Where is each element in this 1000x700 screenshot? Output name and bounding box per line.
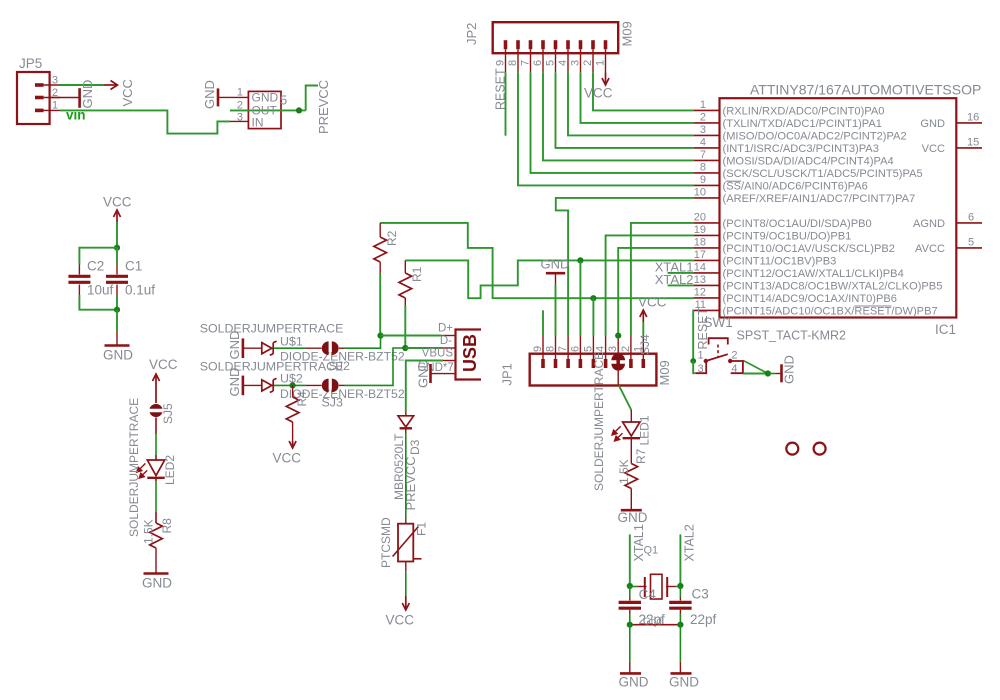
- svg-text:(MOSI/SDA/DI/ADC4/PCINT4)PA4: (MOSI/SDA/DI/ADC4/PCINT4)PA4: [723, 155, 894, 167]
- SW1 lever: [706, 354, 728, 361]
- LED LED1: [623, 422, 640, 438]
- svg-text:GND: GND: [920, 118, 945, 130]
- diode D3 MBR0520LT (pointing down): [398, 412, 414, 428]
- wire XTAL2 junction to crystal right plate: [666, 586, 680, 588]
- wire R2 bottom to D+ junction: [379, 273, 381, 336]
- junction dot SW1 GND: [765, 370, 771, 376]
- junction dot at OUT net: [296, 107, 302, 113]
- svg-text:1: 1: [237, 87, 243, 99]
- wire U$1 diode to SJ2: [274, 347, 322, 349]
- svg-text:XTAL2: XTAL2: [655, 272, 694, 287]
- ground symbol (rotated) at regulator pin1: [217, 88, 220, 106]
- wire SW1 pin4 to GND junction: [743, 373, 768, 375]
- svg-text:19: 19: [694, 224, 706, 236]
- wire JP2 pin8 to IC pin9: [518, 72, 694, 185]
- junction dot RESET at SW1: [690, 358, 696, 364]
- wire U$2 GND bar to diode: [243, 384, 262, 386]
- wire JP2 pin3 to IC pin2: [581, 72, 695, 123]
- svg-text:7: 7: [557, 346, 569, 352]
- svg-text:5: 5: [968, 236, 974, 248]
- svg-text:7: 7: [700, 149, 706, 161]
- svg-text:R4: R4: [295, 391, 309, 407]
- connector JP1 body: [530, 354, 657, 386]
- supply VCC arrow (up) above SJ5: [153, 374, 160, 403]
- Gnd bus bar between C4 and C3: [630, 624, 681, 626]
- svg-text:D-: D-: [440, 335, 452, 347]
- resistor R1: [399, 260, 412, 305]
- supply VCC arrow (up) at JP1 pin1: [640, 310, 647, 322]
- svg-text:2: 2: [700, 111, 706, 123]
- wire vin: JP5 pin1 to regulator IN: [60, 110, 230, 133]
- svg-text:2: 2: [731, 350, 737, 362]
- SW1 actuator dashed link: [717, 345, 719, 357]
- svg-text:4: 4: [595, 346, 607, 352]
- svg-text:U$1: U$1: [280, 335, 303, 349]
- wire XTAL2 junction down to C3: [679, 586, 681, 601]
- svg-text:12: 12: [694, 286, 706, 298]
- wire diagonal JP1 pin3 to LED1: [619, 386, 631, 411]
- wire OUT junction up to PREVCC label: [306, 86, 318, 111]
- wire regulator GND pin to bar: [218, 96, 248, 98]
- JP2 pin numbers (rotated): [495, 60, 607, 66]
- capacitor C2 plates: [68, 276, 90, 282]
- wire IC pin11 RESET down to SW1: [692, 310, 695, 361]
- svg-text:(SS/AIN0/ADC6/PCINT6)PA6: (SS/AIN0/ADC6/PCINT6)PA6: [723, 180, 868, 192]
- svg-text:3: 3: [700, 124, 706, 136]
- svg-text:4: 4: [557, 60, 569, 66]
- svg-text:3: 3: [607, 346, 619, 352]
- svg-text:(PCINT11/OC1BV)PB3: (PCINT11/OC1BV)PB3: [723, 255, 837, 267]
- svg-text:3: 3: [52, 75, 58, 87]
- op-amp/mcu IC1 body: [720, 98, 957, 317]
- wire XTAL1 junction to crystal left plate: [630, 586, 647, 588]
- svg-text:C3: C3: [692, 587, 709, 602]
- svg-text:R8: R8: [160, 518, 174, 534]
- svg-text:SJ4: SJ4: [638, 334, 652, 355]
- svg-text:R7: R7: [634, 448, 648, 464]
- svg-text:PTCSMD: PTCSMD: [379, 517, 393, 568]
- svg-text:D+: D+: [438, 323, 453, 335]
- USB pin stubs: [431, 336, 456, 374]
- svg-text:VCC: VCC: [120, 79, 135, 106]
- svg-text:(PCINT10/OC1AV/USCK/SCL)PB2: (PCINT10/OC1AV/USCK/SCL)PB2: [723, 243, 895, 255]
- svg-text:VCC: VCC: [103, 195, 132, 210]
- wire LED2 to R8: [155, 478, 157, 523]
- IC1 pin names PA0..PA7: [723, 105, 923, 204]
- resistor R2: [374, 223, 387, 273]
- ground symbol (rotated) at USB GND*7: [429, 364, 432, 383]
- svg-text:GND: GND: [103, 348, 133, 363]
- svg-text:Q1: Q1: [644, 545, 659, 557]
- svg-text:1: 1: [700, 99, 706, 111]
- svg-text:AVCC: AVCC: [915, 243, 945, 255]
- wire U$1 GND bar to diode: [243, 347, 262, 349]
- supply VCC arrow (down) below F1: [402, 596, 409, 610]
- svg-text:AGND: AGND: [913, 218, 945, 230]
- wire R8 to GND: [155, 548, 157, 574]
- svg-text:VCC: VCC: [386, 613, 415, 628]
- wire U$2 diode to SJ3 with R4 junction: [274, 384, 322, 386]
- svg-text:8: 8: [700, 161, 706, 173]
- SW1 pin2 stub: [730, 360, 744, 362]
- wire JP2 pin7 to IC pin8: [531, 72, 695, 173]
- wire C4 to bottom junction: [629, 610, 631, 625]
- svg-text:VCC: VCC: [922, 143, 945, 155]
- IC1 left pin stubs: [694, 110, 720, 310]
- wire RESET junction to SW1 pin3: [693, 361, 696, 373]
- junction dot top of C1/C2: [114, 245, 120, 251]
- svg-text:(PCINT14/ADC9/OC1AX/INT0)PB6: (PCINT14/ADC9/OC1AX/INT0)PB6: [723, 293, 897, 305]
- svg-text:(PCINT12/OC1AW/XTAL1/CLKI)PB4: (PCINT12/OC1AW/XTAL1/CLKI)PB4: [723, 268, 904, 280]
- svg-text:D3: D3: [408, 439, 422, 455]
- svg-text:7: 7: [520, 60, 532, 66]
- svg-text:VCC: VCC: [638, 295, 667, 310]
- zener diode U$1: [262, 341, 277, 355]
- svg-text:10: 10: [694, 186, 706, 198]
- mounting hole H2: [814, 443, 826, 455]
- svg-text:LED2: LED2: [163, 455, 177, 485]
- capacitor C3 plates: [669, 602, 691, 608]
- JP2 pins 9..1: [506, 40, 606, 72]
- wire OUT net across regulator to junction: [230, 109, 306, 111]
- junction dot bottom of C1/C2: [114, 307, 120, 313]
- wire C2 bottom to junction: [79, 295, 117, 310]
- connector JP2 body: [493, 22, 619, 53]
- capacitor C2 pins: [78, 265, 80, 296]
- resistor R7: [625, 464, 638, 489]
- svg-text:SOLDERJUMPERTRACE: SOLDERJUMPERTRACE: [200, 322, 344, 336]
- svg-text:USB: USB: [460, 334, 480, 372]
- wire SJ2 to D+ riser: [339, 336, 381, 349]
- SW1 actuator cap: [709, 338, 728, 344]
- wire JP2 pin9 RESET stub: [505, 72, 507, 136]
- svg-text:3: 3: [698, 363, 704, 375]
- junction dot D+: [377, 333, 383, 339]
- SW1 pin1 contact dot: [704, 359, 708, 363]
- switch SW1 right pole: [731, 362, 743, 373]
- svg-text:(TXLIN/TXD/ADC1/PCINT1)PA1: (TXLIN/TXD/ADC1/PCINT1)PA1: [723, 118, 882, 130]
- svg-text:18: 18: [694, 236, 706, 248]
- net stub XTAL2 at IC pin13: [668, 284, 694, 286]
- solder jumper SJ5: [150, 404, 163, 417]
- svg-text:R1: R1: [410, 266, 424, 282]
- svg-text:1: 1: [52, 100, 58, 112]
- ground symbol below R8: [144, 572, 169, 575]
- LED1 emission arrows: [612, 426, 623, 441]
- svg-text:(MISO/DO/OC0A/ADC2/PCINT2)PA2: (MISO/DO/OC0A/ADC2/PCINT2)PA2: [723, 130, 907, 142]
- svg-text:XTAL2: XTAL2: [683, 524, 697, 561]
- svg-text:0.1uf: 0.1uf: [125, 283, 155, 298]
- overline for SS in PA6: [726, 180, 741, 182]
- svg-text:8: 8: [545, 346, 557, 352]
- svg-text:5: 5: [582, 346, 594, 352]
- svg-text:(PCINT13/ADC8/OC1BW/XTAL2/CLKO: (PCINT13/ADC8/OC1BW/XTAL2/CLKO)PB5: [723, 280, 943, 292]
- svg-text:PREVCC: PREVCC: [316, 80, 331, 134]
- svg-text:VCC: VCC: [584, 86, 613, 101]
- LED2 emission arrows: [137, 463, 148, 478]
- svg-text:M09: M09: [620, 21, 635, 46]
- junction dot D-: [402, 345, 408, 351]
- svg-text:6: 6: [569, 346, 581, 352]
- wire IC pin20 to JP1 pin2: [631, 223, 694, 336]
- capacitor C1 pins: [116, 265, 118, 296]
- svg-text:3: 3: [237, 111, 243, 123]
- regulator pin names: [252, 91, 279, 130]
- wire JP1 pin6 riser: [579, 260, 581, 335]
- svg-text:C2: C2: [87, 259, 104, 274]
- svg-text:VCC: VCC: [149, 357, 178, 372]
- svg-text:SOLDERJUMPERTRACE: SOLDERJUMPERTRACE: [127, 398, 141, 537]
- svg-text:1: 1: [698, 350, 704, 362]
- svg-text:22pf: 22pf: [690, 612, 717, 627]
- svg-text:(PCINT15/ADC10/OC1BX/RESET/DW): (PCINT15/ADC10/OC1BX/RESET/DW)PB7: [723, 305, 938, 317]
- svg-text:6: 6: [968, 211, 974, 223]
- svg-text:C1: C1: [125, 259, 142, 274]
- svg-text:LED1: LED1: [638, 415, 652, 445]
- IC1 right pin stubs: [956, 123, 982, 248]
- wire R2 top to IC pin12 row (VCC net staircase): [380, 223, 694, 298]
- overline for RESET in PB7: [855, 305, 892, 307]
- mounting hole H1: [786, 443, 798, 455]
- svg-text:GND: GND: [142, 576, 172, 591]
- wire JP2 pin5 to IC pin4: [556, 72, 695, 148]
- junction dot XTAL1: [627, 583, 633, 589]
- svg-text:SJ3: SJ3: [322, 395, 343, 409]
- svg-text:(RXLIN/RXD/ADC0/PCINT0)PA0: (RXLIN/RXD/ADC0/PCINT0)PA0: [723, 105, 885, 117]
- ground symbol below C1/C2: [105, 331, 130, 346]
- ground symbol below C3: [671, 672, 692, 675]
- resistor R8: [150, 523, 163, 548]
- regulator pin 2 OUT stub: [230, 109, 248, 111]
- wire VCC arrow to JP1 pin1: [642, 322, 644, 335]
- zener diode U$2: [262, 378, 277, 392]
- junction dot JP1 pin6 on pin17 row: [577, 257, 583, 263]
- supply VCC arrow (right) at JP5: [104, 81, 118, 90]
- JP5 pin 2: [35, 96, 60, 100]
- ground symbol below R7: [621, 509, 642, 512]
- IC1 right pin names: [913, 118, 945, 255]
- svg-text:SOLDERJUMPERTRACE: SOLDERJUMPERTRACE: [200, 359, 344, 373]
- svg-text:GND: GND: [227, 331, 242, 360]
- svg-text:IN: IN: [252, 115, 264, 129]
- supply VCC arrow (up) above C1: [114, 210, 121, 222]
- wire JP1 pin9 stub: [542, 310, 544, 335]
- svg-text:GND: GND: [80, 80, 95, 109]
- svg-text:14: 14: [694, 261, 706, 273]
- wire R4 to VCC arrow: [292, 422, 294, 441]
- wire SJ3 to D- net: [339, 348, 405, 385]
- ground symbol below C4: [620, 672, 641, 675]
- svg-text:SOLDERJUMPERTRACE: SOLDERJUMPERTRACE: [592, 352, 606, 491]
- IC1 left pin numbers: [694, 99, 706, 311]
- svg-text:1.5K: 1.5K: [617, 459, 631, 484]
- svg-text:16: 16: [967, 111, 979, 123]
- svg-text:1: 1: [595, 60, 607, 66]
- JP1 pins 9..1: [543, 336, 643, 369]
- wire VBUS to D3: [406, 361, 443, 413]
- solder jumper SJ4 on JP1 pin3: [611, 353, 625, 370]
- svg-text:SPST_TACT-KMR2: SPST_TACT-KMR2: [737, 329, 847, 343]
- wire GND to JP1 pin8: [555, 285, 557, 336]
- svg-text:GND: GND: [619, 675, 649, 690]
- solder jumper SJ3: [322, 379, 339, 393]
- resistor R4: [286, 397, 299, 422]
- fuse F1 PTCSMD: [393, 524, 422, 562]
- wire C4 junction to GND: [629, 625, 631, 674]
- wire to LED1 anode: [630, 410, 632, 423]
- svg-text:IC1: IC1: [935, 322, 956, 337]
- junction dot C3 bottom: [677, 622, 683, 628]
- svg-text:9: 9: [532, 346, 544, 352]
- svg-text:JP1: JP1: [500, 363, 515, 385]
- wire C3 junction to GND: [679, 625, 681, 674]
- wire JP5 pin3 to VCC arrow: [60, 84, 104, 86]
- ground symbol (rotated) at SW1: [780, 364, 783, 382]
- svg-text:GND: GND: [541, 257, 570, 272]
- wire JP2 pin6 to IC pin7: [543, 72, 694, 160]
- supply VCC arrow (down) below R4: [289, 441, 296, 448]
- svg-text:4: 4: [731, 363, 737, 375]
- svg-text:JP5: JP5: [19, 56, 42, 71]
- junction dot XTAL2: [677, 583, 683, 589]
- USB connector body (open right): [456, 330, 482, 380]
- wire top junction to C2 branch: [79, 248, 117, 265]
- wire SJ4 to JP1 box bottom: [617, 369, 619, 386]
- supply VCC arrow (down) at JP2 pin1: [602, 72, 609, 85]
- wire R4 stem: [292, 385, 294, 397]
- svg-text:F1: F1: [415, 522, 429, 536]
- svg-text:M09: M09: [657, 360, 672, 385]
- svg-text:GND: GND: [669, 675, 699, 690]
- SW1 pin number labels: [698, 350, 738, 375]
- capacitor C4 plates: [619, 602, 641, 608]
- JP5 pin 3: [35, 83, 60, 87]
- svg-text:(PCINT9/OC1BU/DO)PB1: (PCINT9/OC1BU/DO)PB1: [723, 230, 852, 242]
- wire F1 to VCC arrow: [405, 562, 407, 597]
- solder jumper SJ2: [322, 341, 339, 355]
- IC1 pin names PB0..PB7: [723, 218, 943, 318]
- svg-text:ATTINY87/167AUTOMOTIVETSSOP: ATTINY87/167AUTOMOTIVETSSOP: [750, 82, 981, 98]
- regulator pin 3 IN stub: [230, 120, 248, 122]
- wire VCC arrow to top junction: [116, 222, 118, 248]
- wire IC pin18 to JP1 pin3: [618, 248, 694, 336]
- svg-text:GND: GND: [782, 355, 797, 384]
- svg-text:5: 5: [280, 93, 287, 108]
- wire top junction down to C1: [116, 248, 118, 265]
- wire R1 bottom to D- junction: [404, 305, 406, 348]
- svg-text:VBUS: VBUS: [422, 348, 454, 360]
- svg-text:GND: GND: [202, 80, 217, 109]
- junction dot C4 bottom: [627, 622, 633, 628]
- net stub XTAL1 at IC pin14: [668, 272, 694, 274]
- svg-text:(INT1/ISRC/ADC3/PCINT3)PA3: (INT1/ISRC/ADC3/PCINT3)PA3: [723, 143, 879, 155]
- wire XTAL1 junction down to C4: [629, 586, 631, 601]
- wire JP2 pin2 to IC pin1: [593, 72, 694, 110]
- svg-text:SW1: SW1: [704, 315, 733, 330]
- junction dot JP1 pin5 on pin12 row: [590, 295, 596, 301]
- svg-text:17: 17: [694, 249, 706, 261]
- JP5 pin 1: [35, 109, 60, 113]
- svg-text:5: 5: [545, 60, 557, 66]
- wire IC pin19 to JP1 pin4: [606, 235, 694, 335]
- ground symbol (rotated) at U$1: [242, 338, 245, 358]
- svg-text:13: 13: [694, 274, 706, 286]
- svg-text:VCC: VCC: [273, 451, 302, 466]
- svg-text:R2: R2: [385, 230, 399, 246]
- svg-text:SJ5: SJ5: [161, 403, 175, 424]
- svg-text:1.5K: 1.5K: [142, 519, 156, 544]
- wire D3 to F1: [405, 428, 407, 523]
- JP5 pin numbers: [52, 75, 58, 112]
- svg-text:GND: GND: [618, 510, 648, 525]
- svg-text:20: 20: [694, 211, 706, 223]
- svg-text:9: 9: [700, 174, 706, 186]
- svg-text:4: 4: [700, 136, 706, 148]
- wire C3 to bottom junction: [679, 610, 681, 625]
- wire JP1 pin5 riser: [592, 298, 594, 335]
- svg-text:GND: GND: [416, 359, 431, 388]
- connector JP5: [17, 72, 50, 124]
- svg-text:Gnd: Gnd: [643, 617, 662, 628]
- wire D- to USB: [405, 347, 441, 349]
- wire SW1 pin2 diagonal to GND junction: [744, 361, 768, 374]
- switch SW1 left pole: [696, 361, 706, 373]
- crystal Q1: [645, 574, 667, 599]
- capacitor C1 plates: [106, 276, 128, 282]
- svg-text:2: 2: [582, 60, 594, 66]
- wire bottom junction to GND: [116, 310, 118, 331]
- wire R1 top to IC pin17 row staircase: [405, 260, 694, 298]
- net stub XTAL2 to crystal: [679, 534, 681, 586]
- svg-text:15: 15: [967, 136, 979, 148]
- svg-text:6: 6: [532, 60, 544, 66]
- junction dot JP1 pin3: [615, 333, 621, 339]
- wire D+ to USB: [381, 335, 442, 337]
- regulator IC body: [248, 91, 281, 128]
- USB pin labels: [417, 323, 453, 375]
- svg-text:C4: C4: [639, 587, 657, 602]
- JP1 pin numbers (rotated): [532, 346, 644, 352]
- wire JP2 pin4 to IC pin3: [568, 72, 694, 135]
- svg-text:(AREF/XREF/AIN1/ADC7/PCINT7)PA: (AREF/XREF/AIN1/ADC7/PCINT7)PA7: [723, 193, 916, 205]
- wire SJ5 to LED2: [155, 418, 157, 461]
- wire junction to GND bar: [768, 373, 782, 375]
- svg-text:2: 2: [620, 346, 632, 352]
- regulator pin numbers: [237, 87, 243, 124]
- wire LED1 to R7: [630, 438, 632, 463]
- wire JP5 pin2 to GND bar: [50, 97, 80, 99]
- inverted ground symbol above JP1 pin8: [546, 273, 565, 284]
- wire R7 to GND: [630, 489, 632, 511]
- svg-text:GND: GND: [227, 368, 242, 397]
- svg-text:3: 3: [570, 60, 582, 66]
- wire C1 bottom to junction: [116, 295, 118, 310]
- svg-text:(SCK/SCL/USCK/T1/ADC5/PCINT5)P: (SCK/SCL/USCK/T1/ADC5/PCINT5)PA5: [723, 168, 923, 180]
- svg-text:8: 8: [507, 60, 519, 66]
- wire IC pin10 to JP1 pin7 (staircase): [556, 198, 694, 336]
- junction dot at R4 tap: [290, 382, 296, 388]
- svg-text:(PCINT8/OC1AU/DI/SDA)PB0: (PCINT8/OC1AU/DI/SDA)PB0: [723, 218, 872, 230]
- svg-text:10uf: 10uf: [87, 283, 114, 298]
- svg-text:JP2: JP2: [464, 23, 479, 45]
- svg-text:9: 9: [495, 60, 507, 66]
- net stub XTAL1 to crystal: [629, 534, 631, 586]
- SW1 pin2 contact dot: [728, 359, 732, 363]
- ground symbol (rotated) at U$2: [242, 376, 245, 396]
- LED LED2: [147, 460, 164, 478]
- IC1 right pin numbers: [967, 111, 979, 248]
- ground symbol (rotated) at JP5 pin2: [78, 88, 81, 108]
